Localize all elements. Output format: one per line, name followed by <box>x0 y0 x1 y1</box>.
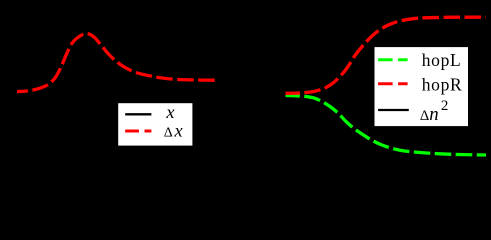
legend sample line dn2 (black solid) <box>378 109 409 111</box>
svg-text:hopR: hopR <box>422 74 463 94</box>
legend sample line x (black solid) <box>125 113 151 115</box>
curve hopR (right panel, red dashed) <box>286 17 487 93</box>
curve hopL (right panel, green dashed) <box>286 96 487 156</box>
legend sample line hopR (red dashed) <box>378 82 408 85</box>
curve Dx (left panel, red dashed) <box>17 33 215 91</box>
legend box right <box>374 47 469 127</box>
svg-text:hopL: hopL <box>422 50 462 70</box>
legend sample line Dx (red dashed) <box>125 130 151 133</box>
legend box left <box>118 102 193 146</box>
legend sample line hopL (green dashed) <box>378 58 408 61</box>
svg-text:x: x <box>165 102 174 122</box>
